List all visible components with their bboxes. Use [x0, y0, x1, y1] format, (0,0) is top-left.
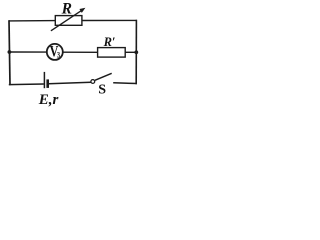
- wire bottom-middle segment: [49, 82, 91, 83]
- wire top-right segment: [82, 19, 137, 21]
- svg-text:R′: R′: [103, 35, 116, 49]
- svg-text:S: S: [98, 83, 106, 98]
- svg-text:3: 3: [57, 49, 60, 59]
- wire left vertical: [9, 20, 10, 85]
- resistor R': [98, 48, 126, 58]
- junction node left: [7, 50, 11, 54]
- voltmeter V3: [47, 43, 63, 61]
- wire top-left segment: [9, 20, 56, 22]
- junction node right: [134, 50, 138, 54]
- wire bottom-right segment: [113, 82, 137, 85]
- wire right vertical: [135, 20, 137, 85]
- wire bottom-left segment: [9, 83, 44, 86]
- svg-text:R: R: [61, 0, 72, 17]
- switch S: [91, 73, 112, 83]
- svg-text:E,r: E,r: [38, 92, 59, 108]
- wire middle branch center: [63, 51, 98, 53]
- resistor R (variable, box with arrow): [51, 8, 86, 31]
- wire middle branch left: [9, 51, 47, 53]
- wire middle branch right: [125, 51, 136, 53]
- battery E,r: [44, 72, 47, 88]
